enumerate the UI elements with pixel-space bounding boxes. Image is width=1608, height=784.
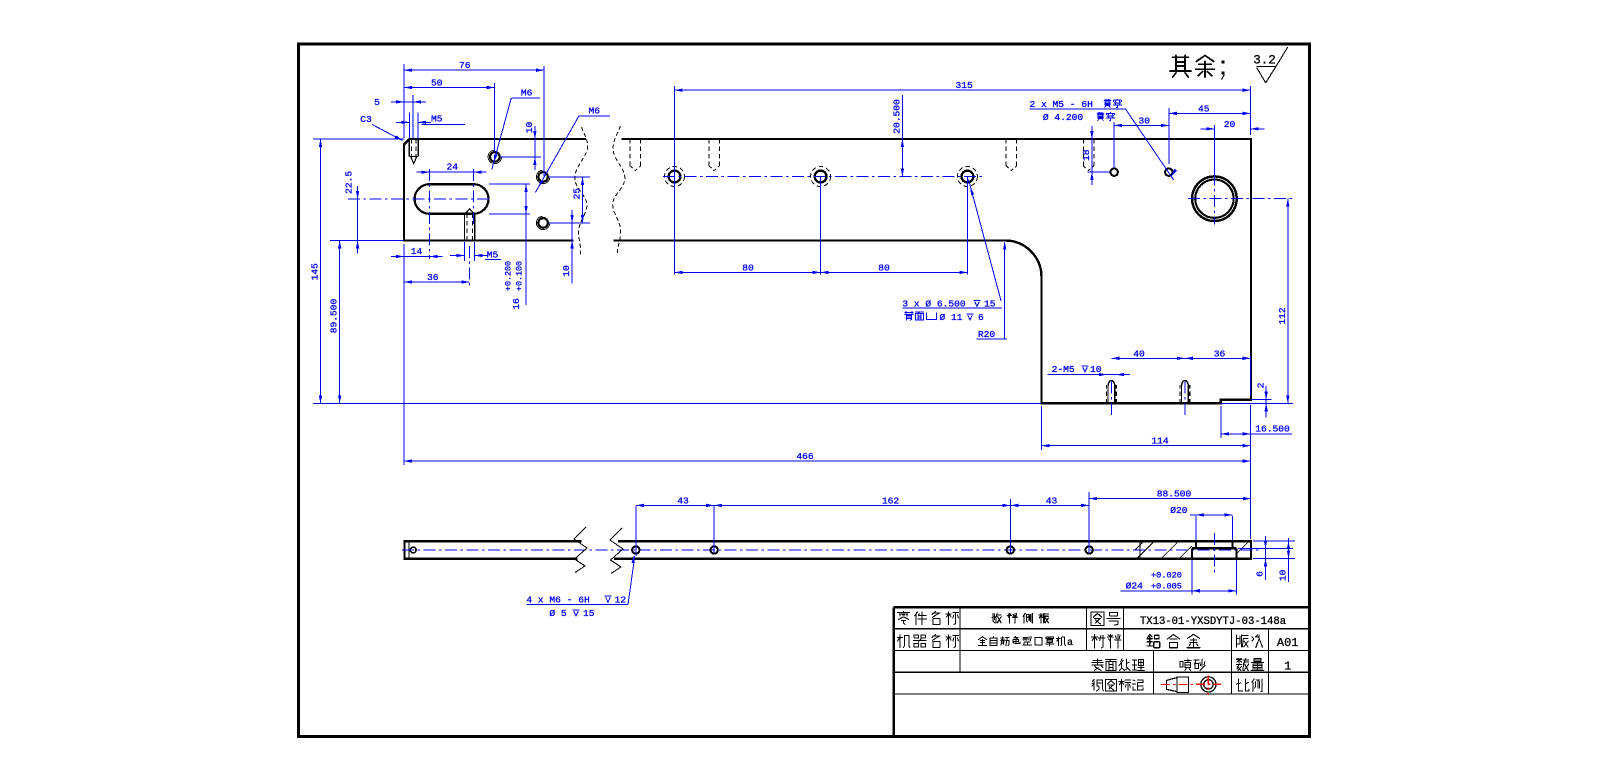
svg-text:315: 315: [955, 80, 973, 91]
projection symbol frustum: [1166, 678, 1177, 692]
break line left (top view): [575, 127, 588, 255]
svg-text:15: 15: [583, 608, 595, 619]
through holes 2x dia4.2: [1111, 169, 1118, 176]
bore dia24/20 top view: [1192, 176, 1237, 221]
dim 43 left: [635, 506, 637, 556]
svg-text:43: 43: [677, 495, 689, 506]
hidden blind holes from top edge: [629, 139, 631, 166]
svg-text:22.5: 22.5: [343, 171, 354, 194]
svg-text:15: 15: [984, 298, 996, 309]
dim 25: [549, 176, 590, 178]
side view holes 4x M6: [632, 546, 639, 553]
dim 76: [403, 64, 405, 138]
drawing border frame: [299, 44, 1310, 737]
dim 16.500: [1220, 406, 1222, 438]
dim 466: [404, 460, 1251, 462]
dim 43 right: [1088, 492, 1090, 553]
svg-text:10: 10: [561, 265, 572, 277]
section hatching: [1139, 541, 1141, 558]
surface treatment value: [1180, 659, 1191, 671]
dim 114: [1041, 406, 1043, 450]
dim 18: [1088, 171, 1110, 173]
break line right (top view): [613, 126, 625, 255]
title block columns: [959, 607, 961, 672]
svg-text:89.500: 89.500: [329, 298, 340, 333]
svg-text:C3: C3: [360, 114, 372, 125]
dim 10 strip thickness: [1253, 540, 1295, 542]
svg-text:18: 18: [1081, 149, 1092, 161]
svg-text:16.500: 16.500: [1255, 424, 1290, 435]
svg-text:M5: M5: [431, 114, 443, 125]
label surface treatment: [1092, 659, 1103, 671]
counterbore row centerline: [663, 176, 985, 178]
svg-text:145: 145: [310, 263, 321, 281]
strip hole M5 left end: [410, 547, 416, 553]
dim 14: [403, 244, 405, 465]
svg-text:114: 114: [1151, 436, 1169, 447]
tapped holes 2-M5 from bottom shelf: [1106, 385, 1108, 403]
dim 5: [412, 95, 414, 138]
svg-text:40: 40: [1133, 348, 1145, 359]
slot centerline: [348, 198, 492, 200]
svg-text:162: 162: [882, 495, 900, 506]
svg-text:Ø 11: Ø 11: [940, 312, 963, 323]
dim 89.500: [339, 240, 341, 403]
slot 24x16 oval: [415, 184, 489, 214]
svg-text:Ø 5: Ø 5: [549, 608, 567, 619]
dim 20: [1213, 125, 1215, 176]
dim 22.5: [330, 239, 404, 241]
tapped hole M6 #1: [490, 152, 500, 162]
svg-text:50: 50: [431, 78, 443, 89]
label scale cell: [1236, 679, 1248, 691]
callout 4x M6-6H: [628, 557, 635, 605]
svg-text:20.500: 20.500: [891, 99, 902, 134]
svg-text:+0.100: +0.100: [515, 261, 525, 291]
dim 112: [1287, 199, 1289, 404]
label machine-name cell: [897, 635, 910, 648]
callout M5 bottom: [464, 242, 466, 261]
svg-text:6: 6: [978, 312, 984, 323]
svg-text:M6: M6: [521, 88, 533, 99]
dim 88.500: [1089, 498, 1251, 500]
label quantity cell: [1236, 658, 1248, 670]
svg-text:466: 466: [796, 451, 814, 462]
counterbore dia20/dia24 section: [1195, 541, 1197, 548]
dim 6 counterbore depth: [1238, 547, 1293, 549]
svg-text:16: 16: [511, 298, 522, 310]
svg-text:3 x: 3 x: [902, 298, 920, 309]
dim 2 step: [1251, 399, 1272, 401]
svg-text:12: 12: [615, 594, 627, 605]
svg-text:Ø24: Ø24: [1126, 581, 1144, 592]
svg-text:TX13-01-YXSDYTJ-03-148a: TX13-01-YXSDYTJ-03-148a: [1140, 616, 1286, 628]
dim dia20 counterbore: [1195, 516, 1197, 540]
svg-text:+0.200: +0.200: [504, 261, 514, 291]
plate outline top view: [404, 139, 1251, 403]
general roughness note Qi-Yu: [1170, 56, 1191, 78]
title block rows: [894, 628, 1310, 630]
svg-text:10: 10: [524, 122, 535, 134]
svg-text:36: 36: [427, 272, 439, 283]
dim 16 tol slot width: [489, 183, 530, 185]
svg-text:112: 112: [1277, 307, 1288, 325]
svg-text:2-M5: 2-M5: [1052, 364, 1075, 375]
svg-text:Ø 4.200: Ø 4.200: [1043, 112, 1084, 123]
tapped hole M6 #2: [538, 172, 548, 182]
dim 30: [1113, 122, 1115, 168]
break line right (side view): [610, 528, 623, 574]
svg-text:a: a: [1067, 638, 1073, 649]
svg-text:2: 2: [1256, 382, 1267, 388]
callout 3x dia6.5 counterbore: [969, 180, 1002, 302]
svg-text:3.2: 3.2: [1253, 54, 1276, 68]
svg-text:A01: A01: [1277, 636, 1299, 650]
dim 20.500: [901, 139, 903, 177]
tapped hole M5 below slot: [464, 215, 466, 241]
dim 145: [313, 138, 404, 140]
svg-text:M6: M6: [588, 106, 600, 117]
svg-text:30: 30: [1138, 115, 1150, 126]
machine name text: [978, 637, 986, 646]
dims 80 80: [820, 177, 822, 275]
dim 45: [1169, 112, 1251, 114]
dim 10 top: [500, 156, 541, 158]
dim 24 slot: [428, 169, 430, 259]
svg-text:R20: R20: [978, 329, 996, 340]
dim 50: [494, 83, 496, 152]
dim 315: [674, 86, 676, 275]
svg-text:43: 43: [1046, 495, 1058, 506]
label part-name cell: [897, 611, 909, 624]
svg-text:6: 6: [1255, 571, 1266, 577]
counterbored holes 3x dia6.5: [669, 171, 681, 183]
strip centerline: [402, 549, 1262, 551]
dim 10 bottom: [571, 223, 573, 284]
bore centerlines: [1188, 198, 1293, 200]
svg-text:+0.005: +0.005: [1151, 582, 1182, 592]
callout R20: [1004, 243, 1006, 340]
svg-text:80: 80: [878, 262, 890, 273]
label material cell: [1092, 635, 1105, 648]
break line left (side view): [574, 527, 587, 573]
svg-text:4 x M6 - 6H: 4 x M6 - 6H: [526, 594, 589, 605]
dim 40: [1111, 357, 1185, 359]
part name text: [992, 613, 1001, 623]
svg-text:10: 10: [1278, 569, 1289, 581]
svg-text:2 x M5 - 6H: 2 x M5 - 6H: [1030, 99, 1093, 110]
svg-text:76: 76: [459, 60, 471, 71]
svg-text:+0.020: +0.020: [1151, 570, 1182, 580]
dim 162: [1009, 499, 1011, 553]
svg-text:25: 25: [572, 188, 583, 200]
svg-text:Ø 6.500: Ø 6.500: [925, 298, 966, 309]
material value: [1147, 634, 1160, 647]
side view strip outline: [405, 541, 1252, 558]
title block outer: [894, 606, 1310, 609]
svg-text:14: 14: [411, 246, 423, 257]
label drawing-no cell: [1091, 612, 1104, 625]
svg-text:45: 45: [1198, 103, 1210, 114]
svg-text:36: 36: [1214, 348, 1226, 359]
svg-text:80: 80: [742, 262, 754, 273]
label view mark cell: [1092, 679, 1104, 691]
dim 36 right: [1250, 356, 1252, 396]
svg-text:20: 20: [1224, 119, 1236, 130]
svg-text:Ø20: Ø20: [1170, 505, 1188, 516]
svg-text:24: 24: [446, 162, 458, 173]
strip left end line: [408, 541, 410, 558]
tapped hole M6 #3: [538, 218, 548, 228]
tapped hole M5 top-left (section lines): [408, 139, 410, 157]
svg-text:1: 1: [1284, 660, 1291, 674]
label revision cell: [1237, 635, 1249, 647]
projection symbol circles: [1201, 677, 1216, 692]
dim dia24 tol: [1191, 560, 1193, 595]
svg-text:5: 5: [374, 97, 380, 108]
dim 36: [469, 246, 471, 286]
svg-text:88.500: 88.500: [1157, 489, 1192, 500]
callout M5 top-left: [408, 113, 410, 139]
